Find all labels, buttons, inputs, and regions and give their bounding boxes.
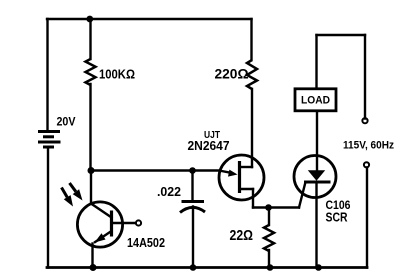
svg-text:14A502: 14A502 [127, 235, 165, 250]
svg-text:2N2647: 2N2647 [188, 139, 230, 153]
svg-text:22Ω: 22Ω [230, 228, 254, 244]
svg-text:.022: .022 [157, 185, 181, 199]
svg-text:SCR: SCR [326, 211, 348, 225]
svg-text:100KΩ: 100KΩ [99, 67, 135, 82]
svg-text:20V: 20V [57, 115, 76, 129]
svg-text:220Ω: 220Ω [215, 66, 249, 82]
svg-text:115V, 60Hz: 115V, 60Hz [343, 140, 394, 152]
svg-text:LOAD: LOAD [301, 95, 330, 107]
